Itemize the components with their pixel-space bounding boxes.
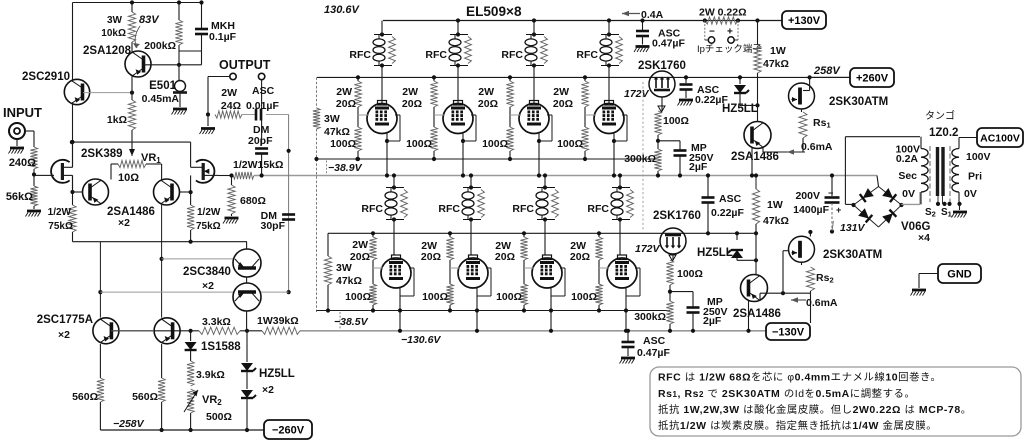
power box -260V xyxy=(264,420,312,439)
ground transformer xyxy=(952,204,968,218)
capacitor DM 20pF xyxy=(248,124,273,178)
wire bridge AC right xyxy=(901,192,920,204)
svg-text:2SA1208: 2SA1208 xyxy=(83,45,132,57)
svg-text:30pF: 30pF xyxy=(260,220,285,232)
tube V5 EL509 xyxy=(381,255,411,288)
resistor 3.3kohm xyxy=(199,316,240,334)
notes box xyxy=(650,367,1021,436)
svg-text:300kΩ: 300kΩ xyxy=(624,153,656,165)
resistor 3.9kohm xyxy=(187,361,225,386)
svg-text:×2: ×2 xyxy=(202,280,214,292)
resistor 2W 20ohm bottom 1 xyxy=(350,231,377,263)
node cathode bus bottom xyxy=(317,310,671,312)
ground input jack xyxy=(9,139,25,154)
svg-text:47kΩ: 47kΩ xyxy=(324,126,350,138)
transformer T1 primary xyxy=(952,138,977,205)
wire 2SA1208 collector out xyxy=(144,63,202,67)
wire mid output bus xyxy=(254,175,877,177)
svg-text:0.45mA: 0.45mA xyxy=(142,93,180,105)
wire zener to base bottom xyxy=(737,258,758,262)
capacitor 1400uF xyxy=(793,173,841,233)
wire collector 2SC2910 xyxy=(72,3,74,81)
svg-text:2SA1486: 2SA1486 xyxy=(733,308,781,320)
wire 2SA1486 sources xyxy=(111,170,162,180)
wire 1k to VR1 xyxy=(131,93,133,152)
node 172V bottom xyxy=(635,243,661,255)
tube V7 EL509 xyxy=(532,255,562,288)
svg-text:20Ω: 20Ω xyxy=(570,251,590,263)
svg-text:GND: GND xyxy=(947,268,972,280)
svg-text:Sec: Sec xyxy=(898,170,917,182)
svg-text:−38.9V: −38.9V xyxy=(328,162,363,174)
svg-text:RFC: RFC xyxy=(425,49,447,61)
node divider junction xyxy=(32,169,36,186)
wire 3840a base xyxy=(162,258,233,260)
resistor 100ohm top 4 xyxy=(557,127,589,161)
svg-text:S1: S1 xyxy=(941,207,952,219)
wire right cap branch xyxy=(287,115,291,295)
node sec labels xyxy=(895,144,920,201)
svg-text:200V: 200V xyxy=(795,190,820,202)
wire 15k feed xyxy=(218,175,233,177)
svg-text:1W39kΩ: 1W39kΩ xyxy=(257,315,299,327)
wire grid stub bottom 3 xyxy=(524,260,534,284)
resistor 2W 24ohm xyxy=(215,87,242,118)
svg-text:−260V: −260V xyxy=(272,424,305,436)
transistor Q2 2SA1208 xyxy=(83,45,151,77)
wire RFC top feed 3 xyxy=(532,18,536,103)
transistor Q3 2SA1486a xyxy=(83,179,109,205)
svg-text:0V: 0V xyxy=(902,188,915,200)
svg-text:1/2W15kΩ: 1/2W15kΩ xyxy=(233,159,283,171)
potentiometer VR1 10ohm xyxy=(118,149,161,184)
wire 3840 chain xyxy=(246,242,248,331)
svg-text:0V: 0V xyxy=(964,188,977,200)
wire bridge AC left xyxy=(845,137,920,205)
svg-text:3W: 3W xyxy=(324,113,340,125)
rectifier bridge V06G xyxy=(851,176,930,245)
svg-text:0.6mA: 0.6mA xyxy=(806,297,838,309)
ground output xyxy=(200,115,216,135)
wire output right xyxy=(261,80,263,145)
resistor 56kohm xyxy=(6,186,38,206)
wire 2SA1486 top base xyxy=(757,77,759,121)
svg-text:2SK1760: 2SK1760 xyxy=(638,60,686,72)
svg-text:100V: 100V xyxy=(966,151,991,163)
svg-text:0.1µF: 0.1µF xyxy=(209,31,237,43)
wire 2SK30 bottom drain xyxy=(808,230,812,237)
resistor 2W 20ohm bottom 3 xyxy=(495,231,528,263)
wire cathode top 1 xyxy=(385,115,400,178)
svg-text:2SC2910: 2SC2910 xyxy=(22,71,70,83)
resistor Rs2 xyxy=(783,262,834,323)
jfet 2SK389 left half xyxy=(40,160,73,183)
wire RFC top feed 4 xyxy=(607,18,611,103)
svg-text:+: + xyxy=(836,205,841,215)
wire RFC top feed 2 xyxy=(456,18,460,103)
svg-text:+130V: +130V xyxy=(788,15,821,27)
wire 1775b feed xyxy=(160,205,164,318)
capacitor MKH 0.1uF xyxy=(195,0,237,64)
resistor 1kohm xyxy=(107,100,136,130)
resistor 2W 0.22ohm xyxy=(699,7,747,25)
transistor Q5 2SA1486 top xyxy=(731,122,779,164)
fet U3 2SK1760 bottom xyxy=(653,210,701,254)
svg-text:130.6V: 130.6V xyxy=(324,4,361,16)
svg-text:0.6mA: 0.6mA xyxy=(801,141,833,153)
node 2SK389 label xyxy=(81,148,123,160)
svg-text:560Ω: 560Ω xyxy=(72,391,98,403)
wire driver node bottom xyxy=(668,285,693,301)
wire cathode top 4 xyxy=(612,115,627,178)
svg-text:100Ω: 100Ω xyxy=(496,291,522,303)
wire left bottom corner xyxy=(73,232,248,244)
inductor RFC bottom 4 xyxy=(587,185,633,221)
inductor RFC top 4 xyxy=(576,32,622,67)
wire 2SA1486a collector xyxy=(72,191,83,193)
wire jack to divider xyxy=(25,131,34,147)
wire cathode bottom 4 xyxy=(624,268,640,333)
svg-text:RFC: RFC xyxy=(501,49,523,61)
svg-text:INPUT: INPUT xyxy=(3,105,42,120)
wire 75k right bottom xyxy=(190,230,192,242)
wire 3840b base xyxy=(100,291,233,293)
resistor 2W 20ohm bottom 2 xyxy=(421,231,454,263)
capacitor MP 2uF top xyxy=(674,141,714,178)
wire jfet left source xyxy=(72,175,74,192)
node 172V top xyxy=(624,82,650,230)
resistor 2W 20ohm top 1 xyxy=(336,75,362,110)
svg-text:1/2W: 1/2W xyxy=(48,207,72,218)
wire bottom screen bus xyxy=(328,232,756,234)
svg-text:E501: E501 xyxy=(149,80,176,92)
current diode E501 xyxy=(142,65,187,105)
svg-text:56kΩ: 56kΩ xyxy=(6,191,33,203)
wire grid stub bottom 4 xyxy=(599,260,609,284)
svg-text:100Ω: 100Ω xyxy=(482,138,508,150)
svg-text:2µF: 2µF xyxy=(689,161,708,173)
resistor 2W 20ohm top 2 xyxy=(402,75,438,110)
svg-text:2SK30ATM: 2SK30ATM xyxy=(829,96,888,108)
node -38.9V label xyxy=(327,161,363,175)
transformer T1 secondary xyxy=(921,137,928,205)
terminal output right xyxy=(258,73,264,79)
svg-text:ASC: ASC xyxy=(719,193,742,205)
svg-text:100Ω: 100Ω xyxy=(571,291,597,303)
wire 2SA1486 bottom emitter xyxy=(760,291,785,301)
tube V6 EL509 xyxy=(458,255,488,288)
fet U1 2SK1760 top xyxy=(638,60,686,97)
svg-text:タンゴ: タンゴ xyxy=(925,109,955,122)
svg-text:258V: 258V xyxy=(813,65,841,77)
svg-text:100Ω: 100Ω xyxy=(557,138,583,150)
note line 4 xyxy=(658,419,937,432)
ground 680ohm xyxy=(223,214,239,224)
svg-text:ASC: ASC xyxy=(643,335,666,347)
resistor 560ohm a xyxy=(72,344,104,430)
svg-text:3.3kΩ: 3.3kΩ xyxy=(202,316,231,328)
input jack J1 xyxy=(9,123,25,139)
resistor 100ohm bottom 4 xyxy=(571,284,603,313)
svg-text:131V: 131V xyxy=(840,222,866,234)
node 0.6mA bottom xyxy=(791,297,838,309)
tube V2 EL509 xyxy=(443,101,473,134)
svg-text:1W: 1W xyxy=(767,199,783,211)
svg-text:2SC3840: 2SC3840 xyxy=(183,266,231,278)
wire -130.6V bus xyxy=(111,329,766,333)
wire output left xyxy=(206,77,230,117)
svg-text:20Ω: 20Ω xyxy=(421,251,441,263)
wire driver node top xyxy=(656,135,680,149)
resistor 100ohm bottom 2 xyxy=(422,284,454,313)
resistor 75kohm right xyxy=(187,192,221,232)
transistor Q8 2SC1775Ab xyxy=(154,318,180,344)
transistor Q6 2SA1486 bottom xyxy=(733,275,781,321)
diode HZ5LL top xyxy=(722,75,758,115)
power box +260V xyxy=(850,68,894,87)
inductor RFC top 3 xyxy=(501,32,547,67)
inductor RFC bottom 1 xyxy=(361,185,407,221)
wire grid stub top 3 xyxy=(510,107,521,127)
tube V1 EL509 xyxy=(367,101,397,134)
wire 2SK30 bottom gate xyxy=(783,251,789,294)
terminal output left xyxy=(230,73,236,79)
node INPUT label xyxy=(3,105,42,120)
svg-text:20Ω: 20Ω xyxy=(478,98,498,110)
svg-text:1S1588: 1S1588 xyxy=(201,341,241,353)
wire top-left rail xyxy=(73,2,202,4)
wire base 2SC2910 xyxy=(83,91,134,95)
note line 2 xyxy=(658,387,915,400)
wire 200k top xyxy=(177,0,202,64)
svg-text:20Ω: 20Ω xyxy=(495,251,515,263)
capacitor ASC 0.47uF bottom xyxy=(620,329,671,364)
svg-text:2SC1775A: 2SC1775A xyxy=(37,314,93,326)
wire jfet right drain xyxy=(190,142,192,192)
resistor 75kohm left xyxy=(48,205,76,232)
wire -258V rail xyxy=(100,428,264,432)
svg-text:2µF: 2µF xyxy=(703,315,722,327)
svg-text:RFC: RFC xyxy=(576,49,598,61)
wire RFC bottom feed 1 xyxy=(392,173,396,255)
wire 1775 bases xyxy=(111,330,154,332)
node 0.4A arrow xyxy=(622,9,664,21)
transistor Q7 2SC1775Aa xyxy=(37,314,119,344)
resistor Rs1 xyxy=(799,109,831,152)
svg-text:2SK1760: 2SK1760 xyxy=(653,210,701,222)
svg-text:1/2W: 1/2W xyxy=(197,207,221,218)
svg-text:1W: 1W xyxy=(770,45,786,57)
svg-text:10kΩ: 10kΩ xyxy=(101,28,126,39)
wire cathode top 2 xyxy=(461,115,476,178)
wire screen bus top +260V xyxy=(317,76,850,78)
resistor 300kohm bottom xyxy=(634,301,673,333)
wire grid stub bottom 2 xyxy=(450,260,460,284)
wire emitter 2SC2910 xyxy=(70,104,74,205)
wire grid stub top 4 xyxy=(585,107,596,127)
diode HZ5LL bottom xyxy=(697,231,743,260)
svg-text:×4: ×4 xyxy=(918,232,930,244)
wire grid stub top 1 xyxy=(358,107,369,127)
tube V8 EL509 xyxy=(607,255,637,288)
wire +130V rail xyxy=(383,20,782,22)
svg-text:47kΩ: 47kΩ xyxy=(763,215,789,227)
wire +260V link xyxy=(810,76,850,78)
resistor 3W 47kohm bottom xyxy=(324,233,362,312)
svg-text:−: − xyxy=(828,188,833,198)
resistor 1W 47kohm bottom xyxy=(752,173,789,235)
svg-text:1kΩ: 1kΩ xyxy=(107,114,127,126)
svg-text:20Ω: 20Ω xyxy=(350,251,370,263)
svg-text:S2: S2 xyxy=(925,207,936,219)
resistor 300kohm top xyxy=(624,149,661,178)
svg-text:2SK30ATM: 2SK30ATM xyxy=(823,249,882,261)
svg-text:47kΩ: 47kΩ xyxy=(336,275,362,287)
wire 2SK1760 source xyxy=(658,97,665,112)
resistor 100ohm bottom 1 xyxy=(345,284,377,313)
wire 2SK1760 drain xyxy=(0,0,1,1)
svg-text:20Ω: 20Ω xyxy=(402,98,422,110)
transistor Q4 2SA1486b xyxy=(107,179,180,229)
svg-text:100Ω: 100Ω xyxy=(345,291,371,303)
svg-text:560Ω: 560Ω xyxy=(132,391,158,403)
transistor Q9 2SC3840a xyxy=(183,249,261,292)
ground 56kohm xyxy=(26,206,42,217)
svg-text:75kΩ: 75kΩ xyxy=(48,221,73,232)
node -130.6V label xyxy=(401,334,441,346)
svg-text:OUTPUT: OUTPUT xyxy=(219,58,271,72)
wire 10k to 2SA1208 xyxy=(130,0,134,52)
svg-text:2SK389: 2SK389 xyxy=(81,148,123,160)
svg-text:0.22µF: 0.22µF xyxy=(711,207,744,219)
svg-text:24Ω: 24Ω xyxy=(221,100,241,112)
resistor 2W 20ohm bottom 4 xyxy=(570,231,603,263)
resistor 100ohm top 1 xyxy=(330,127,362,161)
wire RFC top feed 1 xyxy=(381,21,383,104)
node OUTPUT label xyxy=(219,58,271,72)
resistor 2W 20ohm top 3 xyxy=(478,75,514,110)
resistor 100ohm driver top xyxy=(654,111,689,135)
wire GND link xyxy=(919,274,938,289)
svg-text:×2: ×2 xyxy=(262,384,274,396)
wire 2SA1486b collector xyxy=(180,190,193,194)
resistor 100ohm top 2 xyxy=(406,127,438,161)
node EL509 label xyxy=(466,4,522,19)
wire 30pF to 3840 xyxy=(261,291,289,293)
fet U2 2SK30ATM top xyxy=(789,83,889,109)
svg-text:300kΩ: 300kΩ xyxy=(634,311,666,323)
svg-text:3.9kΩ: 3.9kΩ xyxy=(196,369,225,381)
wire cathode bottom 3 xyxy=(549,268,565,333)
transformer T1 core xyxy=(930,146,950,202)
wire cathode bottom 1 xyxy=(398,268,414,333)
svg-text:−258V: −258V xyxy=(113,418,145,430)
svg-text:RFC: RFC xyxy=(512,203,534,215)
node cathode bus top xyxy=(317,157,659,161)
svg-text:83V: 83V xyxy=(139,14,160,26)
diode HZ5LL x2 b xyxy=(241,368,295,430)
svg-text:−38.5V: −38.5V xyxy=(334,316,369,328)
tube V4 EL509 xyxy=(594,101,624,134)
svg-text:100Ω: 100Ω xyxy=(406,138,432,150)
svg-text:Pri: Pri xyxy=(968,171,982,183)
ground E501 xyxy=(172,93,188,115)
wire grid stub bottom 1 xyxy=(373,260,383,284)
inductor RFC bottom 3 xyxy=(512,185,558,221)
svg-text:2W: 2W xyxy=(402,86,418,98)
tube V3 EL509 xyxy=(519,101,549,134)
power box -130V xyxy=(766,323,810,340)
node tango label xyxy=(925,109,958,139)
svg-text:0.01µF: 0.01µF xyxy=(246,100,279,112)
capacitor ASC 0.47uF top xyxy=(634,18,685,52)
resistor 200kohm xyxy=(144,20,182,52)
wire RFC bottom feed 4 xyxy=(618,173,622,255)
svg-text:2W 0.22Ω: 2W 0.22Ω xyxy=(699,7,747,19)
svg-text:HZ5LL: HZ5LL xyxy=(697,247,733,259)
svg-text:1Z0.2: 1Z0.2 xyxy=(929,127,958,139)
svg-text:20pF: 20pF xyxy=(248,135,273,147)
wire 2SA1486 bottom base xyxy=(755,233,757,274)
wire RFC bottom feed 2 xyxy=(469,173,473,255)
wire top link xyxy=(70,140,191,167)
resistor 3W 10kohm xyxy=(101,12,135,42)
svg-text:1400µF: 1400µF xyxy=(793,204,829,216)
svg-text:+260V: +260V xyxy=(856,72,889,84)
node 83V label xyxy=(133,14,160,48)
potentiometer VR2 500ohm xyxy=(184,389,232,430)
svg-text:2W: 2W xyxy=(478,86,494,98)
node pri labels xyxy=(964,151,991,200)
transistor Q1 2SC2910 xyxy=(22,71,90,105)
resistor 3W 47kohm top xyxy=(313,108,350,138)
svg-text:0.4A: 0.4A xyxy=(641,9,664,21)
svg-text:抵抗 1W,2W,3W は酸化金属皮膜。但し2W0.22Ω: 抵抗 1W,2W,3W は酸化金属皮膜。但し2W0.22Ω は MCP-78。 xyxy=(658,403,972,416)
svg-text:3W: 3W xyxy=(107,15,123,26)
svg-text:2W: 2W xyxy=(221,87,237,99)
diode 1S1588 xyxy=(185,331,242,361)
svg-text:100Ω: 100Ω xyxy=(677,268,703,280)
resistor 1W 47kohm top xyxy=(754,18,789,77)
svg-text:3W: 3W xyxy=(336,262,352,274)
capacitor MP 2uF bottom xyxy=(687,292,728,333)
inductor RFC bottom 2 xyxy=(438,185,484,221)
svg-text:0.47µF: 0.47µF xyxy=(637,347,670,359)
resistor 240ohm xyxy=(9,147,38,169)
svg-text:2W: 2W xyxy=(553,86,569,98)
svg-text:EL509×8: EL509×8 xyxy=(466,4,522,19)
svg-text:500Ω: 500Ω xyxy=(206,411,232,423)
wire link bus to 3840 xyxy=(98,242,102,318)
node -38.5V label xyxy=(334,312,369,329)
resistor 680ohm xyxy=(228,173,266,214)
diode HZ5LL x2 a xyxy=(241,331,256,389)
svg-text:47kΩ: 47kΩ xyxy=(763,58,789,70)
svg-text:AC100V: AC100V xyxy=(980,132,1020,144)
svg-text:20Ω: 20Ω xyxy=(336,98,356,110)
wire 2SA1208 emitter xyxy=(131,76,133,93)
wire 2SA1486 top emitter xyxy=(763,141,833,155)
svg-text:抵抗1/2W は炭素皮膜。指定無き抵抗は1/4W 金属皮膜。: 抵抗1/2W は炭素皮膜。指定無き抵抗は1/4W 金属皮膜。 xyxy=(658,419,937,432)
wire 2SA1486 bottom collector xyxy=(746,301,750,333)
svg-text:2SA1486: 2SA1486 xyxy=(731,151,779,163)
svg-text:172V: 172V xyxy=(624,88,650,100)
terminal Ip check plus xyxy=(727,21,738,44)
svg-text:RFC: RFC xyxy=(438,203,460,215)
wire gate 2SK30 top xyxy=(803,75,812,90)
svg-text:10Ω: 10Ω xyxy=(118,172,139,184)
node transformer terminals xyxy=(925,195,962,219)
